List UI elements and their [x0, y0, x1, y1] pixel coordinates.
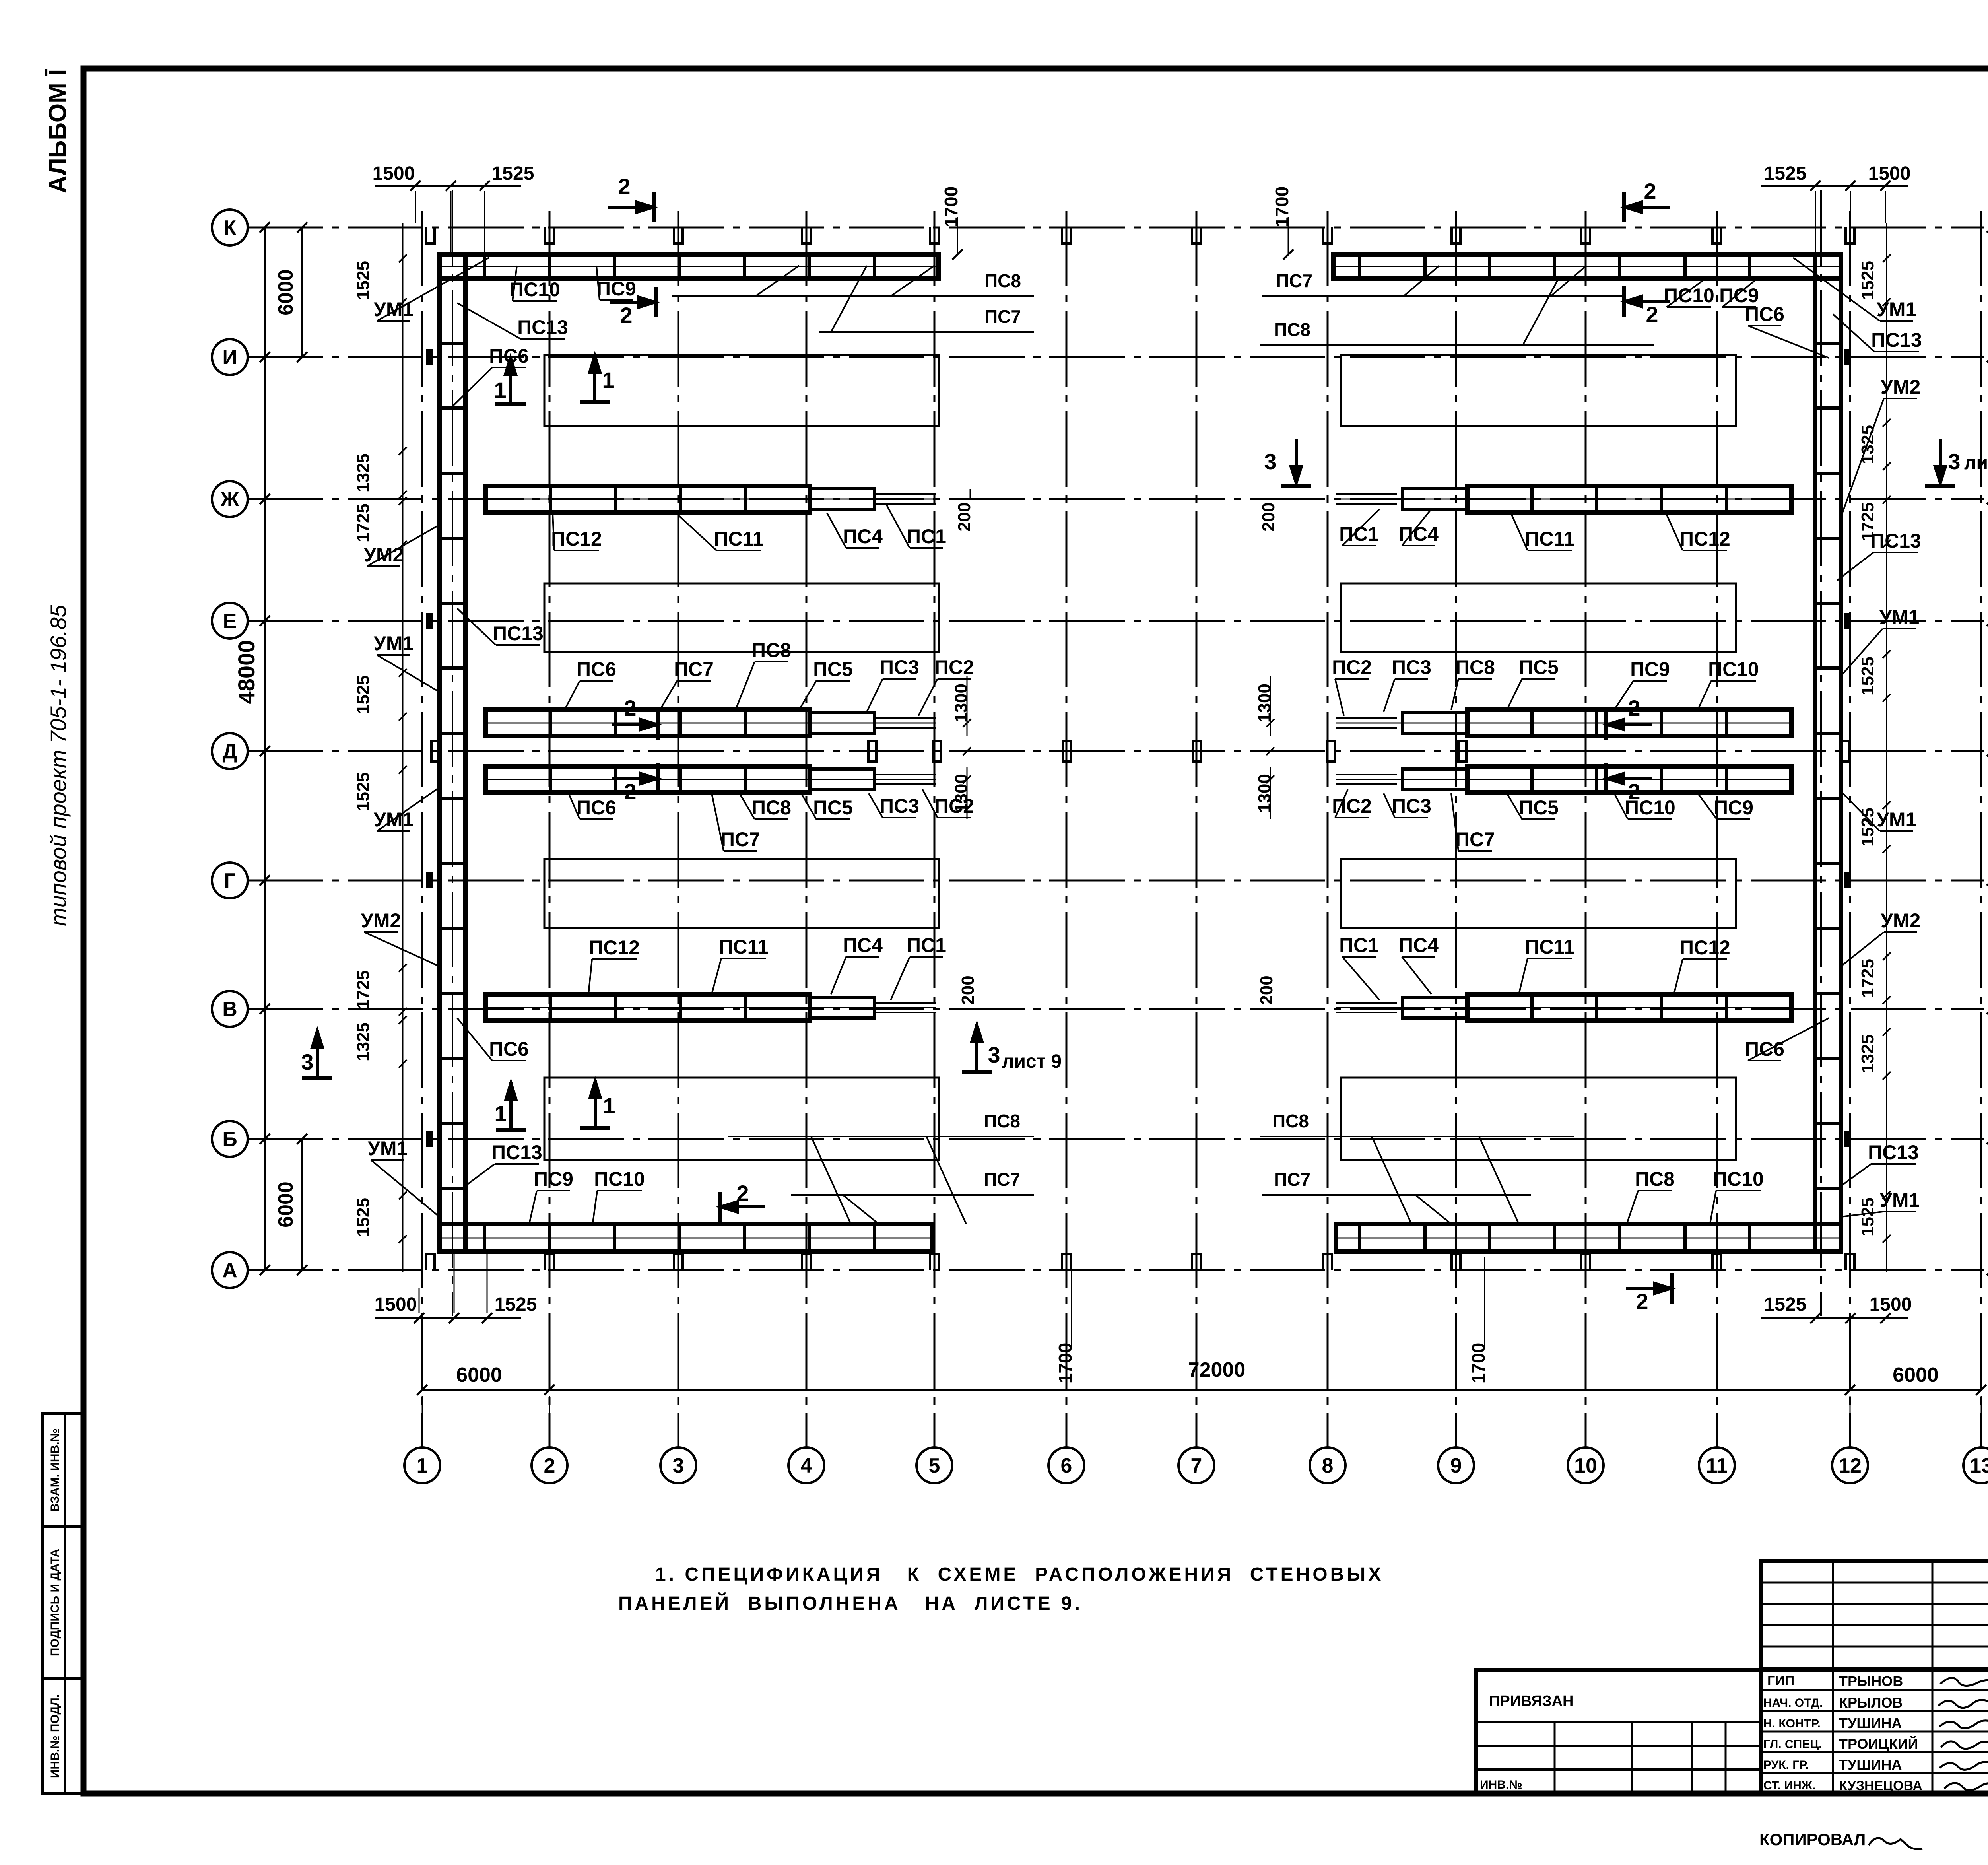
partition wall band on axis Ж, left (ПС12 ПС11 ПС4 ПС1): [486, 486, 810, 512]
svg-text:ПС7: ПС7: [1274, 1169, 1310, 1190]
vertical dim 6000 Б-А: [301, 1139, 303, 1270]
svg-text:10: 10: [1574, 1454, 1597, 1477]
svg-text:1725: 1725: [353, 503, 373, 542]
svg-text:5: 5: [929, 1454, 940, 1477]
svg-text:ПС5: ПС5: [1519, 656, 1559, 678]
svg-text:ПС2: ПС2: [1332, 795, 1372, 817]
row axis Е circle: [212, 603, 248, 639]
svg-text:ПС3: ПС3: [1392, 795, 1431, 817]
svg-text:лист 9: лист 9: [1964, 453, 1988, 474]
svg-text:УМ2: УМ2: [361, 909, 401, 932]
svg-text:1700: 1700: [1272, 186, 1292, 227]
svg-text:ТУШИНА: ТУШИНА: [1839, 1756, 1902, 1773]
bottom wall band, right half: [1336, 1224, 1841, 1252]
svg-text:УМ1: УМ1: [374, 632, 414, 655]
svg-text:2: 2: [620, 303, 632, 328]
column axis 11 circle: [1699, 1447, 1735, 1483]
svg-text:ИНВ.№: ИНВ.№: [1480, 1778, 1522, 1791]
svg-text:13: 13: [1970, 1454, 1988, 1477]
svg-text:лист 9: лист 9: [1002, 1051, 1062, 1072]
section mark 3, row В left: [316, 1030, 319, 1078]
right wall band: [1815, 254, 1841, 1252]
svg-text:2: 2: [1636, 1289, 1648, 1314]
storage bay outline right 1: [1341, 355, 1736, 426]
svg-text:ПС7: ПС7: [1276, 270, 1312, 291]
section mark 2, top right lower: [1624, 300, 1670, 303]
svg-text:ПС12: ПС12: [589, 936, 640, 959]
partition wall band on axis В, right: [1467, 995, 1791, 1021]
svg-text:1525: 1525: [1764, 163, 1807, 184]
svg-text:КРЫЛОВ: КРЫЛОВ: [1839, 1694, 1903, 1711]
storage bay outline right 2: [1341, 583, 1736, 652]
svg-text:ПС12: ПС12: [1679, 528, 1730, 550]
column axis 10 circle: [1568, 1447, 1604, 1483]
svg-text:Н. КОНТР.: Н. КОНТР.: [1763, 1717, 1821, 1730]
svg-text:1500: 1500: [373, 163, 415, 184]
svg-text:1: 1: [602, 367, 614, 392]
svg-text:9: 9: [1450, 1454, 1462, 1477]
svg-text:1525: 1525: [353, 1198, 373, 1237]
section mark 3 лист 9, row Ж right: [1939, 439, 1942, 483]
row axis К circle: [212, 210, 248, 245]
svg-text:6: 6: [1061, 1454, 1072, 1477]
svg-text:1500: 1500: [1870, 1294, 1912, 1315]
column markers on row К: [426, 227, 435, 243]
row axis А circle: [212, 1252, 248, 1288]
right wall dim chain: [1886, 223, 1887, 1272]
title block mini grid: [1761, 1561, 1988, 1793]
svg-text:1325: 1325: [353, 1022, 373, 1061]
partition wall band on axis Ж, right (ПС1 ПС4 ПС11 ПС12): [1467, 486, 1791, 512]
column axis 12 line: [1849, 211, 1851, 1447]
storage bay outline left 3: [544, 859, 939, 928]
svg-text:3: 3: [988, 1042, 1000, 1067]
svg-text:6000: 6000: [274, 269, 297, 315]
storage bay outline right 4: [1341, 1078, 1736, 1160]
svg-text:1700: 1700: [1055, 1343, 1076, 1383]
svg-text:Б: Б: [222, 1128, 237, 1151]
svg-text:1. СПЕЦИФИКАЦИЯ К СХЕМЕ РА: 1. СПЕЦИФИКАЦИЯ К СХЕМЕ РАСПОЛОЖЕНИЯ СТЕ…: [655, 1564, 1384, 1585]
svg-text:1: 1: [494, 377, 506, 402]
svg-text:3: 3: [1264, 449, 1276, 474]
column axis 9 circle: [1438, 1447, 1474, 1483]
svg-text:УМ1: УМ1: [1879, 606, 1920, 628]
section mark 1, below И left pair: [509, 357, 512, 404]
svg-text:1525: 1525: [353, 675, 373, 714]
row axis Ж circle: [212, 481, 248, 517]
column markers on row А: [426, 1254, 435, 1270]
svg-text:7: 7: [1191, 1454, 1202, 1477]
svg-text:ПС12: ПС12: [1679, 936, 1730, 959]
svg-text:1525: 1525: [492, 163, 534, 184]
column axis 5 line: [934, 211, 936, 1447]
svg-text:ПС8: ПС8: [1455, 656, 1495, 678]
svg-text:2: 2: [1646, 302, 1658, 327]
svg-text:ПС2: ПС2: [934, 795, 974, 817]
column axis 3 line: [678, 211, 679, 1447]
svg-text:ПС1: ПС1: [907, 525, 946, 548]
svg-text:2: 2: [624, 779, 636, 804]
svg-text:1525: 1525: [1858, 808, 1877, 847]
svg-text:СТ. ИНЖ.: СТ. ИНЖ.: [1763, 1779, 1815, 1792]
svg-text:типовой проект 705-1- 196.85: типовой проект 705-1- 196.85: [46, 604, 71, 926]
svg-text:ПС3: ПС3: [879, 656, 919, 678]
column axis 1 circle: [404, 1447, 440, 1483]
svg-text:АЛЬБОМ Ī: АЛЬБОМ Ī: [44, 69, 72, 193]
svg-text:ПС4: ПС4: [1399, 934, 1439, 956]
svg-text:ПС8: ПС8: [751, 797, 791, 819]
svg-text:ПС13: ПС13: [517, 316, 568, 338]
svg-text:8: 8: [1322, 1454, 1334, 1477]
svg-text:ПС1: ПС1: [1339, 934, 1379, 956]
svg-text:А: А: [222, 1259, 237, 1282]
svg-text:В: В: [222, 998, 237, 1021]
column axis 5 circle: [916, 1447, 952, 1483]
svg-text:ПС8: ПС8: [1272, 1111, 1309, 1131]
column markers on row Д (middle): [868, 741, 876, 762]
wall pilaster marks, right wall: [1844, 349, 1850, 365]
section mark 2, top left: [608, 206, 654, 209]
svg-text:ПС7: ПС7: [984, 306, 1021, 327]
svg-text:1725: 1725: [1858, 959, 1877, 998]
svg-text:1700: 1700: [1468, 1343, 1489, 1383]
column axis 2 line: [549, 211, 551, 1447]
svg-text:УМ1: УМ1: [1877, 298, 1917, 321]
svg-text:ПС7: ПС7: [1455, 828, 1495, 851]
svg-text:ПС10: ПС10: [594, 1168, 645, 1190]
row axis И line: [248, 356, 1984, 358]
svg-text:1525: 1525: [1858, 657, 1877, 695]
svg-text:Е: Е: [223, 610, 237, 633]
svg-text:ПС10: ПС10: [1713, 1168, 1764, 1190]
svg-text:ПС11: ПС11: [719, 936, 769, 958]
svg-text:1325: 1325: [1858, 1034, 1877, 1073]
svg-text:ПОДПИСЬ И ДАТА: ПОДПИСЬ И ДАТА: [49, 1549, 62, 1656]
vertical dim 6000 К-И: [301, 227, 303, 357]
svg-text:11: 11: [1706, 1454, 1728, 1477]
svg-text:УМ2: УМ2: [1881, 376, 1921, 398]
svg-text:1300: 1300: [951, 684, 971, 723]
row axis Ж line: [248, 498, 1984, 500]
svg-text:3: 3: [1948, 449, 1960, 474]
svg-text:1525: 1525: [1764, 1294, 1807, 1315]
right wall axis line: [1820, 190, 1822, 1316]
svg-text:ПС6: ПС6: [489, 345, 529, 367]
svg-text:ПС11: ПС11: [714, 528, 764, 550]
svg-text:Д: Д: [222, 740, 237, 763]
svg-text:И: И: [222, 346, 237, 369]
svg-text:3: 3: [673, 1454, 684, 1477]
svg-text:1725: 1725: [353, 970, 373, 1009]
svg-text:УМ1: УМ1: [368, 1137, 408, 1160]
column axis 13 circle: [1963, 1447, 1988, 1483]
svg-text:ПС8: ПС8: [751, 639, 791, 661]
svg-text:ПС6: ПС6: [577, 797, 616, 819]
bottom wall band, left half: [439, 1224, 933, 1252]
svg-text:ПРИВЯЗАН: ПРИВЯЗАН: [1489, 1693, 1573, 1710]
bottom dim 1500/1525 left: [375, 1317, 521, 1319]
svg-text:ПС5: ПС5: [813, 797, 853, 819]
row axis Е line: [248, 620, 1984, 622]
svg-text:ГИП: ГИП: [1767, 1673, 1794, 1688]
partition wall band Е-Д, right: [1467, 710, 1791, 736]
svg-text:ПС3: ПС3: [1392, 656, 1431, 678]
left wall dim chain: [402, 223, 404, 1272]
top dim 1500/1525 right: [1761, 185, 1908, 186]
svg-text:ПС5: ПС5: [1519, 797, 1559, 819]
svg-text:1: 1: [417, 1454, 428, 1477]
svg-text:1: 1: [494, 1101, 507, 1126]
svg-text:1500: 1500: [375, 1294, 417, 1315]
svg-text:ПС3: ПС3: [879, 795, 919, 817]
svg-text:НАЧ. ОТД.: НАЧ. ОТД.: [1763, 1696, 1823, 1710]
bottom dim line 6000 / 72000 / 6000: [422, 1389, 1981, 1391]
partition wall band on axis В, left (ПС12 ПС11 ПС4 ПС1): [486, 995, 810, 1021]
column axis 4 line: [806, 211, 808, 1447]
section mark 2, top left lower: [610, 301, 656, 304]
wall pilaster mark at Д left: [431, 741, 439, 762]
svg-text:ТУШИНА: ТУШИНА: [1839, 1715, 1902, 1731]
column axis 11 line: [1716, 211, 1718, 1447]
svg-text:200: 200: [1259, 502, 1278, 531]
svg-text:УМ1: УМ1: [1877, 808, 1917, 831]
svg-text:4: 4: [801, 1454, 812, 1477]
svg-text:ТРОИЦКИЙ: ТРОИЦКИЙ: [1839, 1735, 1918, 1752]
svg-text:1300: 1300: [1255, 684, 1274, 723]
svg-text:1525: 1525: [1858, 1197, 1877, 1236]
row axis В line: [248, 1008, 1984, 1010]
svg-text:2: 2: [618, 174, 630, 199]
svg-text:К: К: [223, 216, 236, 239]
column axis 10 line: [1585, 211, 1587, 1447]
svg-text:2: 2: [544, 1454, 555, 1477]
svg-text:ПС10: ПС10: [509, 278, 560, 301]
svg-text:Г: Г: [224, 869, 235, 892]
svg-text:ПС7: ПС7: [674, 658, 714, 680]
title block outer: [1476, 1670, 1988, 1793]
storage bay outline left 4: [544, 1078, 939, 1160]
svg-text:ПС6: ПС6: [489, 1038, 529, 1060]
column axis 6 circle: [1048, 1447, 1084, 1483]
section mark 2, band Д-Г right: [1606, 777, 1652, 780]
svg-text:2: 2: [624, 695, 636, 721]
column axis 12 circle: [1832, 1447, 1868, 1483]
svg-text:1525: 1525: [353, 772, 373, 811]
svg-text:1300: 1300: [1255, 774, 1274, 813]
svg-text:2: 2: [736, 1181, 749, 1206]
svg-text:ПС9: ПС9: [596, 278, 636, 300]
svg-text:Ж: Ж: [220, 488, 240, 511]
svg-text:ПС7: ПС7: [720, 828, 760, 851]
svg-text:72000: 72000: [1188, 1358, 1246, 1381]
svg-text:ВЗАМ. ИНВ.№: ВЗАМ. ИНВ.№: [49, 1428, 62, 1512]
svg-text:ПС10: ПС10: [1625, 797, 1675, 819]
svg-text:ПС8: ПС8: [1274, 319, 1310, 340]
svg-text:1500: 1500: [1868, 163, 1911, 184]
svg-text:ПС9: ПС9: [1630, 658, 1670, 680]
svg-text:ПС13: ПС13: [1870, 530, 1921, 552]
svg-text:1525: 1525: [1858, 261, 1877, 300]
svg-text:ИНВ.№ ПОДЛ.: ИНВ.№ ПОДЛ.: [49, 1694, 62, 1778]
svg-text:ПС9: ПС9: [1714, 797, 1753, 819]
row axis И circle: [212, 339, 248, 375]
left stamp table: [42, 1414, 83, 1793]
svg-text:УМ1: УМ1: [1880, 1189, 1920, 1211]
svg-text:1525: 1525: [495, 1294, 537, 1315]
svg-text:ПС13: ПС13: [493, 622, 544, 645]
section mark 2, top right: [1624, 206, 1670, 209]
svg-text:ПС13: ПС13: [1871, 329, 1922, 351]
svg-text:УМ1: УМ1: [374, 298, 414, 321]
row axis Д circle: [212, 733, 248, 769]
svg-text:ТРЫНОВ: ТРЫНОВ: [1839, 1673, 1903, 1689]
svg-text:УМ2: УМ2: [1881, 909, 1921, 932]
svg-text:ПС10: ПС10: [1708, 658, 1759, 680]
svg-text:РУК. ГР.: РУК. ГР.: [1763, 1758, 1809, 1772]
svg-text:48000: 48000: [234, 640, 260, 704]
svg-text:1: 1: [603, 1093, 615, 1118]
svg-text:ПАНЕЛЕЙ ВЫПОЛНЕНА НА ЛИСТЕ: ПАНЕЛЕЙ ВЫПОЛНЕНА НА ЛИСТЕ 9.: [618, 1592, 1083, 1614]
wall pilaster marks, left wall: [426, 349, 433, 365]
storage bay outline left 2: [544, 583, 939, 652]
svg-text:ПС6: ПС6: [1745, 1038, 1784, 1060]
svg-text:ПС7: ПС7: [984, 1169, 1020, 1190]
column axis 7 line: [1196, 211, 1198, 1447]
bottom dim 1525/1500 right: [1761, 1317, 1908, 1319]
storage bay outline right 3: [1341, 859, 1736, 928]
section mark 2, band Е-Д right: [1606, 723, 1652, 726]
svg-text:ПС2: ПС2: [1332, 656, 1372, 678]
attachment block Привязан: [1476, 1721, 1761, 1723]
row axis Д line: [248, 750, 1984, 752]
top wall band, right half: [1333, 254, 1841, 278]
top dim 1500/1525 left: [375, 185, 521, 186]
row axis Г line: [248, 880, 1984, 882]
column axis 8 line: [1327, 211, 1329, 1447]
svg-text:12: 12: [1839, 1454, 1862, 1477]
row axis А line: [248, 1269, 1984, 1271]
section mark 1, above Б left pair: [509, 1082, 513, 1130]
svg-text:ПС13: ПС13: [1868, 1141, 1919, 1164]
svg-text:200: 200: [958, 975, 978, 1004]
row axis Г circle: [212, 863, 248, 898]
svg-text:3: 3: [301, 1049, 313, 1074]
column axis 3 circle: [660, 1447, 696, 1483]
svg-text:ПС5: ПС5: [813, 658, 853, 680]
left wall axis line: [452, 190, 453, 1316]
storage bay outline left 1: [544, 355, 939, 426]
svg-text:ПС1: ПС1: [907, 934, 946, 956]
svg-text:ПС8: ПС8: [984, 1111, 1020, 1131]
svg-text:ПС13: ПС13: [491, 1141, 542, 1164]
svg-text:ПС6: ПС6: [577, 658, 616, 680]
row axis В circle: [212, 991, 248, 1027]
svg-text:ПС11: ПС11: [1525, 936, 1575, 958]
svg-text:200: 200: [1257, 975, 1276, 1004]
svg-text:ПС9: ПС9: [534, 1168, 573, 1190]
partition wall band Д-Г, left: [486, 766, 810, 793]
svg-text:2: 2: [1644, 179, 1656, 204]
section mark 3, row Ж middle: [1295, 439, 1298, 483]
row axis Б line: [248, 1138, 1984, 1140]
svg-text:КУЗНЕЦОВА: КУЗНЕЦОВА: [1839, 1778, 1922, 1793]
left wall band (panels ПС6, ПС13, УМ1, УМ2): [439, 254, 465, 1252]
svg-text:1525: 1525: [353, 261, 373, 300]
svg-text:1325: 1325: [353, 453, 373, 492]
row axis К line: [248, 227, 1984, 229]
section mark 3 лист9, row В middle: [975, 1024, 978, 1072]
wall pilaster mark at Д right: [1841, 741, 1849, 762]
svg-text:1700: 1700: [941, 186, 961, 227]
top wall band, left half (panels ПС7..ПС10): [439, 254, 938, 278]
svg-text:ПС8: ПС8: [984, 270, 1021, 291]
svg-text:ПС4: ПС4: [843, 525, 883, 548]
svg-text:6000: 6000: [456, 1364, 502, 1387]
column axis 2 circle: [532, 1447, 567, 1483]
column axis 9 line: [1455, 211, 1457, 1447]
column axis 1 line: [421, 211, 423, 1447]
svg-text:ПС11: ПС11: [1525, 528, 1575, 550]
section mark 2, bottom right: [1626, 1287, 1672, 1290]
column axis 13 line: [1980, 211, 1982, 1447]
svg-text:ПС8: ПС8: [1635, 1168, 1675, 1190]
row axis Б circle: [212, 1121, 248, 1157]
column axis 4 circle: [788, 1447, 824, 1483]
svg-text:6000: 6000: [1893, 1364, 1939, 1387]
column axis 6 line: [1066, 211, 1068, 1447]
section mark 2, band Е-Д left: [612, 723, 658, 726]
svg-text:6000: 6000: [274, 1181, 297, 1228]
svg-text:ГЛ. СПЕЦ.: ГЛ. СПЕЦ.: [1763, 1738, 1822, 1751]
column axis 8 circle: [1310, 1447, 1345, 1483]
partition wall band Д-Г, right: [1467, 766, 1791, 793]
vertical dim line 48000: [264, 227, 266, 1270]
svg-text:ПС6: ПС6: [1745, 303, 1784, 325]
svg-text:УМ2: УМ2: [364, 544, 404, 566]
svg-text:ПС2: ПС2: [934, 656, 974, 678]
section mark 2, band Д-Г left: [612, 777, 658, 780]
column axis 7 circle: [1178, 1447, 1214, 1483]
svg-text:200: 200: [955, 502, 974, 531]
partition wall band Е-Д, left (ПС6 ПС7 ПС8 ПС5 ПС3 ПС2): [486, 710, 810, 736]
svg-text:2: 2: [1628, 695, 1640, 721]
section mark 2, bottom left: [720, 1205, 765, 1208]
svg-text:ПС4: ПС4: [843, 934, 883, 956]
svg-text:ПС12: ПС12: [551, 528, 602, 550]
svg-text:КОПИРОВАЛ: КОПИРОВАЛ: [1759, 1830, 1866, 1849]
